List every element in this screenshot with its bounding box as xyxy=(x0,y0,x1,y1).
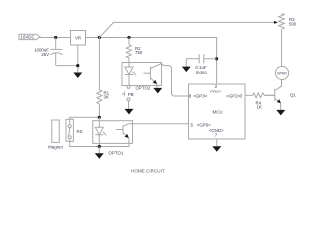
svg-text:1K: 1K xyxy=(257,105,262,110)
ground C2 xyxy=(182,67,191,73)
svg-text:16VDC: 16VDC xyxy=(21,35,35,40)
wire 16VDC to VR input xyxy=(40,37,70,39)
junction dot 16VDC/C1 xyxy=(54,36,57,39)
arrowhead into R3 xyxy=(274,21,278,24)
wire MCU pin7 to ground xyxy=(216,139,218,146)
svg-text:Magnet: Magnet xyxy=(48,145,63,150)
svg-text:0.1uF: 0.1uF xyxy=(195,65,207,70)
junction dot VR/C1 ground xyxy=(76,64,79,67)
junction dot rail/R2 xyxy=(127,36,130,39)
svg-text:VR: VR xyxy=(75,36,81,41)
optocoupler OPTO1 xyxy=(93,117,133,155)
resistor R1 3K xyxy=(97,38,110,118)
svg-text:<GP2>: <GP2> xyxy=(226,94,240,99)
MCU U1 xyxy=(189,84,246,139)
wire OPTO1 collector to MCU GP0 xyxy=(129,123,189,125)
pushbutton PB xyxy=(122,85,134,101)
wire R3 to SPKR xyxy=(281,30,283,67)
ground MCU xyxy=(212,146,221,152)
svg-text:HOME CIRCUIT: HOME CIRCUIT xyxy=(131,168,165,173)
svg-text:750: 750 xyxy=(135,50,143,55)
wire top net to R3 xyxy=(114,21,276,23)
ground VR/C1 xyxy=(73,73,82,79)
svg-text:OPTO1: OPTO1 xyxy=(109,151,124,156)
wire bottom net RS to OPTO1 xyxy=(70,139,129,147)
svg-text:SPKR: SPKR xyxy=(277,72,287,76)
wire OPTO2 emitter to ground xyxy=(156,84,158,88)
magnet xyxy=(48,120,63,150)
ground Q1 emitter xyxy=(276,110,285,116)
ground OPTO2 emitter xyxy=(153,88,162,94)
reed switch RS xyxy=(66,119,83,141)
capacitor C1 1000uF 25V xyxy=(34,38,78,66)
wire MCU GP2 to R4 xyxy=(245,94,253,96)
wire RS top to node A xyxy=(70,117,100,125)
svg-text:PB: PB xyxy=(128,92,134,97)
junction dot node A xyxy=(98,116,101,119)
regulator VR xyxy=(71,31,86,46)
svg-text:MCU: MCU xyxy=(213,110,223,115)
wire PB to ground xyxy=(128,101,130,109)
svg-text:OPTO2: OPTO2 xyxy=(136,85,151,90)
ground bottom net xyxy=(95,153,104,159)
wire OPTO2 collector to MCU GP3 xyxy=(162,64,189,97)
junction dot bottom net xyxy=(98,145,101,148)
transistor Q1 xyxy=(265,89,296,104)
svg-text:mono: mono xyxy=(196,70,208,75)
svg-text:RS: RS xyxy=(77,129,83,134)
svg-text:25V: 25V xyxy=(41,52,49,57)
resistor R4 1K xyxy=(253,93,275,110)
wire VR ground pin xyxy=(77,45,79,73)
junction dot rail/R1 xyxy=(98,36,101,39)
speaker SPKR xyxy=(275,66,288,79)
svg-text:3K: 3K xyxy=(104,95,109,100)
svg-text:<Vcc>: <Vcc> xyxy=(210,89,222,94)
wire VR output rail xyxy=(86,38,217,85)
capacitor C2 0.1uF mono xyxy=(186,54,216,75)
wire SPKR to Q1 collector xyxy=(275,80,282,91)
optocoupler OPTO2 xyxy=(122,63,162,91)
connector 16VDC xyxy=(19,34,40,40)
resistor R2 750 xyxy=(126,38,142,63)
junction dot Vcc/C2 xyxy=(215,57,218,60)
wire diagonal rail to top net xyxy=(99,22,113,37)
svg-text:500: 500 xyxy=(289,22,297,27)
wire Q1 emitter to ground xyxy=(280,103,282,110)
resistor R3 500 xyxy=(279,14,297,30)
ground PB xyxy=(125,109,134,115)
svg-text:<GP3>: <GP3> xyxy=(193,94,207,99)
wire bottom net to ground xyxy=(98,147,100,154)
svg-text:Q1: Q1 xyxy=(290,93,296,98)
